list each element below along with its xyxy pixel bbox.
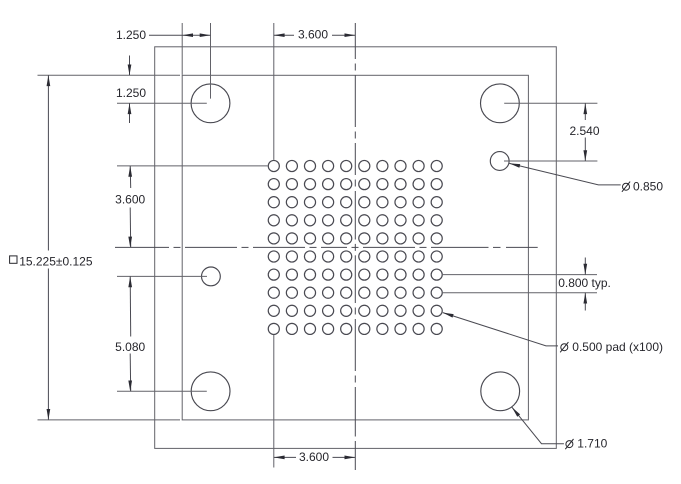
- vertical centerline: [354, 23, 356, 470]
- pad row 7: [268, 269, 279, 280]
- svg-text:3.600: 3.600: [298, 28, 328, 42]
- hole ∅0.850 left: [202, 267, 221, 286]
- pad row 10: [268, 323, 279, 334]
- svg-text:15.225±0.125: 15.225±0.125: [19, 254, 93, 268]
- extension line: hole H2 center right: [504, 102, 597, 104]
- svg-text:0.500 pad (x100): 0.500 pad (x100): [572, 340, 663, 354]
- pad row 3: [268, 197, 279, 208]
- svg-text:2.540: 2.540: [569, 124, 599, 138]
- leader ∅0.850 to top-right small hole: [509, 162, 663, 194]
- extension line: first pad row left: [117, 165, 268, 167]
- dimension 1.250 left: board top edge to hole center: [116, 56, 146, 124]
- extension line: hole H1 center horizontal: [117, 102, 207, 104]
- extension line: 0.850 hole center right: [504, 160, 597, 162]
- svg-text:0.850: 0.850: [633, 179, 663, 193]
- mounting hole H3 bottom-left ∅1.710: [191, 372, 230, 411]
- dimension 2.540 right: hole H2 center to 0.850 hole center: [569, 103, 599, 161]
- pad row 5: [268, 233, 279, 244]
- svg-text:3.600: 3.600: [299, 450, 329, 464]
- extension line: pad row 7 right: [443, 274, 597, 276]
- dimension 0.800 typ.: pad pitch rows 7-8: [558, 258, 611, 311]
- square symbol: [10, 256, 17, 263]
- extension line: first pad column down: [273, 335, 275, 468]
- pad row 6: [268, 251, 279, 262]
- horizontal centerline: [115, 246, 538, 248]
- extension line: board bottom edge left: [38, 419, 181, 421]
- extension line: hole H3 center horizontal: [117, 390, 207, 392]
- diameter symbol: [561, 344, 568, 351]
- dimension □15.225±0.125 overall board size: [10, 75, 93, 420]
- leader ∅1.710 to bottom-right mounting hole: [510, 406, 607, 451]
- extension line: board top edge left: [38, 74, 181, 76]
- dimension 1.250 top: board edge to hole center: [116, 28, 211, 42]
- dimension 3.600 bottom: first pad column to centerline: [274, 450, 356, 464]
- svg-text:3.600: 3.600: [115, 193, 145, 207]
- mounting hole H1 top-left ∅1.710: [191, 84, 230, 123]
- extension line: board left edge up: [181, 23, 183, 75]
- pad row 8: [268, 287, 279, 298]
- hole ∅0.850 top-right: [490, 152, 509, 171]
- pad row 2: [268, 179, 279, 190]
- pad grid: 100 pads ∅0.500, 0.800 pitch: [268, 160, 442, 334]
- svg-text:0.800 typ.: 0.800 typ.: [558, 276, 611, 290]
- extension line: left 0.850 hole center: [117, 275, 207, 277]
- pad row 4: [268, 215, 279, 226]
- diameter symbol: [623, 183, 630, 190]
- outer courtyard outline: [155, 47, 557, 449]
- svg-text:5.080: 5.080: [115, 340, 145, 354]
- leader ∅0.500 pad (x100) to pad: [442, 311, 663, 354]
- pad row 1: [268, 160, 279, 171]
- dimension 5.080 left: 0.850 hole center to hole H3 center: [115, 276, 145, 391]
- mounting hole H4 bottom-right ∅1.710: [481, 372, 520, 411]
- diameter symbol: [566, 441, 573, 448]
- extension line: hole H1 center vertical: [210, 23, 212, 99]
- svg-text:1.710: 1.710: [577, 437, 607, 451]
- svg-text:1.250: 1.250: [116, 86, 146, 100]
- dimension 3.600 top: first pad column to centerline: [274, 28, 356, 42]
- extension line: pad row 8 right: [443, 292, 597, 294]
- extension line: first pad column up: [273, 23, 275, 160]
- pad row 9: [268, 305, 279, 316]
- board outline (15.225 square): [182, 75, 528, 420]
- svg-text:1.250: 1.250: [116, 28, 146, 42]
- mounting hole H2 top-right ∅1.710: [481, 84, 520, 123]
- dimension 3.600 left: first pad row to centerline: [115, 166, 145, 248]
